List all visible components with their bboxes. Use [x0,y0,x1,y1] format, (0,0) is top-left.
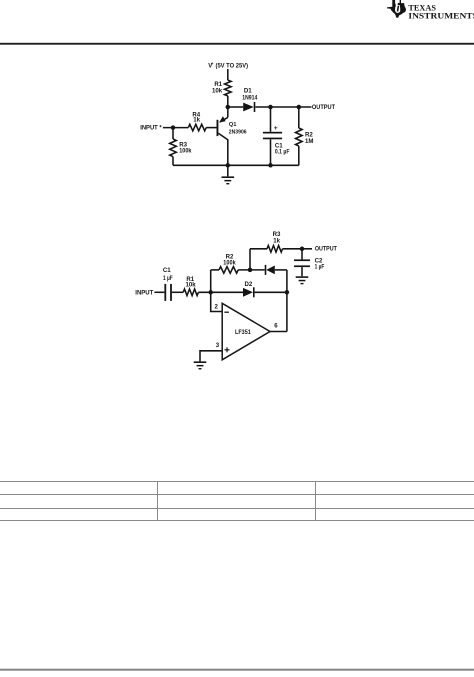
svg-text:INSTRUMENTS: INSTRUMENTS [408,12,474,21]
svg-text:1M: 1M [305,138,313,145]
svg-text:D2: D2 [245,281,253,288]
svg-text:(5V TO 25V): (5V TO 25V) [216,63,249,70]
svg-text:1 µF: 1 µF [163,275,173,282]
svg-text:1k: 1k [193,117,200,124]
svg-text:3: 3 [216,342,220,349]
svg-text:C1: C1 [163,267,171,274]
svg-text:2: 2 [215,304,219,311]
svg-text:OUTPUT: OUTPUT [315,246,337,253]
svg-text:100k: 100k [223,259,236,266]
svg-text:+: + [211,61,214,66]
svg-text:1N914: 1N914 [242,95,258,102]
svg-text:1k: 1k [273,237,280,244]
svg-text:OUTPUT: OUTPUT [312,104,335,111]
svg-text:100k: 100k [179,148,192,155]
svg-text:INPUT *: INPUT * [140,125,162,132]
svg-text:Q1: Q1 [229,122,238,128]
svg-text:10k: 10k [212,88,223,95]
svg-text:6: 6 [274,323,278,330]
svg-text:1 µF: 1 µF [315,264,325,271]
svg-text:0.1 µF: 0.1 µF [275,149,290,156]
svg-text:D1: D1 [244,88,252,95]
svg-text:2N3906: 2N3906 [229,130,247,136]
svg-text:INPUT: INPUT [135,289,153,296]
svg-text:LF351: LF351 [235,329,251,336]
svg-text:10k: 10k [186,282,197,289]
svg-text:+: + [274,125,278,132]
